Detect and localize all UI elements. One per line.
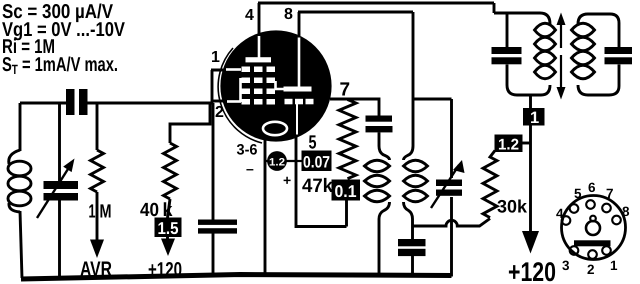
svg-text:40: 40 <box>140 200 159 221</box>
svg-text:2: 2 <box>215 104 224 121</box>
arrow to AVR net <box>90 240 104 259</box>
resistor 30k <box>483 151 497 218</box>
heater/cathode wire pins 3-6 <box>264 139 267 276</box>
wire: tuning branch upper <box>58 103 61 181</box>
IF2 right winding loops <box>572 23 595 37</box>
tube internal electrodes (white) <box>226 35 299 135</box>
detector variable capacitor <box>450 99 453 178</box>
wire: tuning branch lower <box>58 201 61 279</box>
svg-text:M: M <box>100 202 112 223</box>
svg-text:1: 1 <box>610 258 618 273</box>
resistor 47k <box>339 100 356 179</box>
IF2 left tank : top lead <box>494 13 550 24</box>
IF2 left winding loops <box>535 23 556 37</box>
variable capacitor tuning <box>44 181 79 201</box>
pin 7 wire <box>330 99 379 116</box>
wire: antenna top left <box>20 102 66 105</box>
wire: 1.2 cap to +120 feed <box>523 142 531 145</box>
svg-text:–: – <box>246 161 254 177</box>
arrow to +120 net (left) <box>166 237 169 240</box>
svg-text:k: k <box>163 200 173 221</box>
wire 30k bottom with hop <box>412 219 490 227</box>
capacitor 0.07 box <box>296 160 302 162</box>
polarity marks of electrolytic <box>246 161 291 189</box>
wire: left rail lower <box>20 211 22 278</box>
electrolytic 1.2 <box>265 160 296 162</box>
svg-text:1.5: 1.5 <box>158 219 179 238</box>
svg-text:5: 5 <box>574 186 582 201</box>
wire: detector var-cap to ground rail <box>450 197 453 277</box>
svg-text:7: 7 <box>606 186 614 201</box>
wire: 1M bottom lead <box>96 192 99 241</box>
pin 1 stub <box>211 70 224 103</box>
svg-text:4: 4 <box>556 206 564 221</box>
IF2 left side + cap <box>506 13 509 47</box>
capacitor: antenna coupling <box>66 89 88 115</box>
wire: 40k branch from grid junction <box>170 104 210 143</box>
svg-text:1: 1 <box>211 49 220 66</box>
pin 5 wire <box>296 136 347 227</box>
svg-text:8: 8 <box>622 204 630 219</box>
capacitor: grid bypass <box>198 220 237 234</box>
IF2 output transformer : feed from rail1 <box>493 3 496 13</box>
svg-text:+: + <box>283 172 291 188</box>
wire: coupling cap to grid junction <box>88 102 214 105</box>
wire: grid junction down <box>212 103 215 220</box>
svg-text:30k: 30k <box>497 197 528 217</box>
capacitor 1.5 box <box>155 218 182 238</box>
top rail 2 <box>298 11 413 14</box>
antenna coil L1 <box>9 150 20 164</box>
tube V1 outer thin arc <box>218 48 262 143</box>
tube V1 envelope <box>222 32 330 140</box>
svg-text:8: 8 <box>284 6 293 23</box>
svg-text:1: 1 <box>530 109 539 127</box>
svg-text:ST = 1mA/V max.: ST = 1mA/V max. <box>2 54 118 77</box>
svg-text:0.1: 0.1 <box>335 182 357 201</box>
svg-text:0.07: 0.07 <box>303 154 330 172</box>
variable capacitor arrow <box>37 169 68 218</box>
svg-text:2: 2 <box>587 262 595 277</box>
resistor 40k <box>164 143 177 199</box>
wire below 40k <box>168 199 171 218</box>
svg-text:3: 3 <box>562 258 570 273</box>
svg-text:3-6: 3-6 <box>237 142 258 159</box>
wire: 1M top lead <box>96 103 99 150</box>
wire: IF1 bottom cap to ground rail <box>411 256 414 276</box>
svg-text:1.2: 1.2 <box>498 137 519 154</box>
bottom rail <box>21 275 452 280</box>
capacitor below IF1 <box>398 239 426 256</box>
value label 40k <box>140 200 173 221</box>
svg-text:7: 7 <box>340 80 351 101</box>
pin 2 stub <box>213 100 224 103</box>
value label 1M <box>89 202 112 223</box>
arrow to +120 net (right) <box>522 231 539 254</box>
wire: 0.1 cap to pin5 wire <box>345 201 348 227</box>
svg-text:6: 6 <box>588 180 596 195</box>
svg-text:5: 5 <box>309 133 317 154</box>
top rail 1 <box>258 2 494 5</box>
wire rail2 branch right <box>413 98 452 101</box>
pin 8 wire <box>298 12 301 38</box>
svg-text:1: 1 <box>89 202 96 223</box>
capacitor 1.2 box <box>495 135 523 153</box>
svg-text:47k: 47k <box>302 175 333 197</box>
tube socket (bottom view) <box>562 196 626 260</box>
parameter text block <box>2 1 126 77</box>
pin 4 wire <box>258 3 261 34</box>
IF2 right tank : top lead + cap <box>578 14 619 47</box>
wire: IF2 left winding bottom to 1 cap <box>529 95 532 109</box>
tuning arrows <box>560 23 562 89</box>
svg-text:4: 4 <box>245 7 254 24</box>
capacitor above IF1 primary <box>366 116 393 133</box>
wire: grid bypass cap to ground rail <box>212 234 215 277</box>
resistor 1M <box>91 150 104 192</box>
socket key <box>586 221 600 235</box>
IF1 secondary coil <box>404 12 414 160</box>
cathode <box>263 122 287 135</box>
svg-text:+120: +120 <box>508 257 556 284</box>
wire: left rail upper <box>19 103 22 151</box>
svg-text:1.2: 1.2 <box>269 157 285 169</box>
capacitor 0.1 box <box>332 180 361 201</box>
IF1 primary coil <box>379 132 390 160</box>
wire: +120 feed down <box>529 126 532 237</box>
